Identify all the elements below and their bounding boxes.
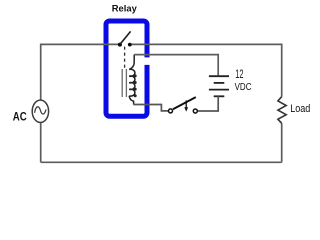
battery plate short 2 [214, 95, 225, 97]
relay actuation dashed link [124, 47, 126, 69]
battery plate long 2 [209, 89, 229, 91]
wire left branch lower [40, 123, 42, 163]
wire battery negative to pushbutton [197, 96, 218, 111]
wire right branch lower [281, 123, 283, 162]
wire top rail right + right branch upper [130, 44, 282, 96]
svg-text:Relay: Relay [112, 2, 138, 13]
wire top rail left + left branch upper [41, 44, 120, 100]
pushbutton contact left [169, 109, 173, 113]
svg-text:VDC: VDC [235, 81, 252, 92]
coil curl 4 [134, 94, 137, 97]
svg-text:Load: Load [290, 103, 310, 115]
coil curl 3 [134, 88, 137, 91]
svg-text:12: 12 [235, 68, 244, 81]
relay core bar 2 [125, 69, 127, 97]
coil curl 1 [134, 74, 137, 77]
battery B1 plate long 1 [209, 75, 229, 77]
wire coil top to battery [134, 55, 218, 76]
relay contact pole dot [118, 43, 122, 47]
relay coil [129, 55, 135, 105]
coil curl 2 [134, 81, 137, 84]
relay core bar 1 [121, 69, 123, 97]
pushbutton contact right [193, 109, 197, 113]
pushbutton actuator arrow [185, 100, 187, 107]
AC source [32, 100, 48, 122]
relay highlight box [106, 21, 147, 116]
relay contact blade [120, 31, 130, 44]
svg-text:AC: AC [13, 111, 27, 124]
load resistor [278, 97, 286, 124]
battery plate short 1 [214, 82, 225, 84]
wire coil bottom to pushbutton [133, 105, 168, 111]
wire bottom rail [41, 161, 282, 163]
relay contact throw dot [128, 43, 132, 47]
pushbutton blade [173, 97, 196, 109]
